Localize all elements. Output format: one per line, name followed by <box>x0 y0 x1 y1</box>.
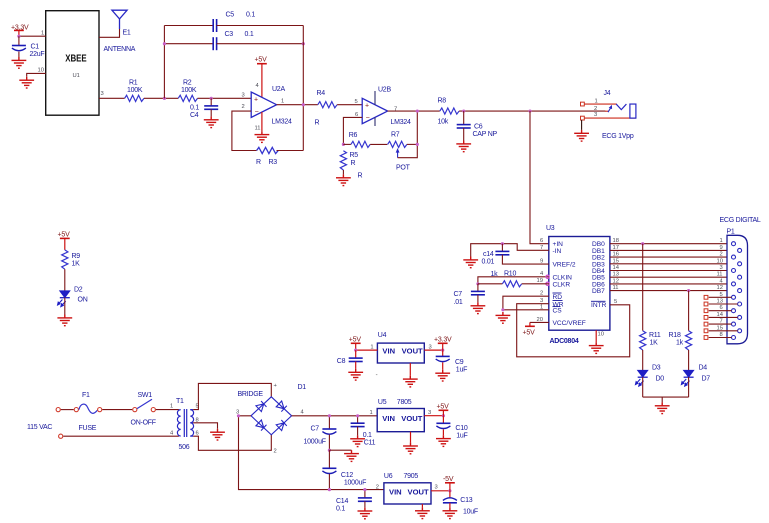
svg-text:0.1: 0.1 <box>336 506 345 513</box>
node XBEE pin1 <box>17 35 20 38</box>
ground LED rail <box>655 402 670 413</box>
capacitor C13 10uF <box>443 491 478 516</box>
resistor R18 1k <box>669 331 692 350</box>
svg-text:LM324: LM324 <box>272 119 293 126</box>
wire CLKIN pin4 <box>478 277 549 284</box>
svg-text:POT: POT <box>396 165 411 172</box>
svg-text:VREF/2: VREF/2 <box>553 262 576 269</box>
svg-text:1: 1 <box>720 238 723 244</box>
ground D2 <box>57 315 72 326</box>
svg-text:+5V: +5V <box>255 57 268 64</box>
svg-text:3: 3 <box>101 91 104 97</box>
svg-text:E1: E1 <box>123 30 131 37</box>
node mid rail C7/C12 <box>328 449 331 452</box>
wire U5 VOUT to +5V node <box>424 415 443 417</box>
resistor R2 100K <box>178 80 197 102</box>
wire ADC pin10 to ground <box>595 330 597 342</box>
svg-text:C4: C4 <box>190 112 199 119</box>
svg-text:VCC/VREF: VCC/VREF <box>553 320 586 327</box>
svg-text:VIN: VIN <box>382 414 395 423</box>
svg-text:U2B: U2B <box>378 87 391 94</box>
wire c14 to VREF/2 <box>502 255 548 264</box>
svg-text:XBEE: XBEE <box>65 54 87 65</box>
node 115 VAC terminal bottom <box>59 434 63 438</box>
wire U2B pin6 <box>343 117 362 144</box>
power +5V at U4 input <box>349 337 362 351</box>
svg-text:DB7: DB7 <box>592 288 605 295</box>
resistor R8 10k <box>438 98 460 126</box>
svg-text:RD: RD <box>553 294 563 301</box>
wire +3.3V node to XBEE pin 1 <box>19 35 46 37</box>
svg-text:c14: c14 <box>483 251 494 258</box>
svg-text:R: R <box>358 173 363 180</box>
wire DB1 <box>610 249 738 251</box>
svg-text:10: 10 <box>38 68 44 74</box>
svg-text:VOUT: VOUT <box>402 347 423 356</box>
capacitor C5 0.1 feedback <box>164 12 303 33</box>
svg-text:D7: D7 <box>702 376 711 383</box>
connector P1 ECG DIGITAL <box>717 217 761 344</box>
wire mid rail to ground <box>329 449 351 451</box>
svg-text:R: R <box>351 160 356 167</box>
svg-text:U5: U5 <box>378 399 387 406</box>
wire top terminal to fuse <box>61 409 74 411</box>
svg-text:3: 3 <box>435 484 438 490</box>
node C4 tap <box>210 97 213 100</box>
svg-text:2: 2 <box>376 484 379 490</box>
wire DB3 <box>610 263 738 265</box>
ground U2A <box>255 131 270 142</box>
node C14 top <box>363 488 366 491</box>
wire U5 gnd tab <box>410 432 412 443</box>
ground C9 <box>435 370 450 381</box>
capacitor C8 <box>337 350 363 369</box>
wire DB2 <box>610 256 732 258</box>
node R5/R6 junction <box>342 143 345 146</box>
wire R9 to D2 <box>64 269 66 291</box>
wire U4 gnd tab <box>409 363 411 376</box>
op-amp U2B LM324 <box>355 87 412 127</box>
svg-text:R10: R10 <box>504 271 516 278</box>
capacitor C3 0.1 feedback <box>164 31 303 50</box>
wire bridge right to U5 VIN (+ rail) <box>292 415 378 417</box>
capacitor C7 1000uF <box>304 416 337 450</box>
node C12 bottom <box>328 488 331 491</box>
svg-text:5: 5 <box>614 299 617 305</box>
svg-text:10: 10 <box>717 258 723 264</box>
capacitor C6 CAP NP <box>457 111 498 140</box>
svg-text:1: 1 <box>370 410 373 416</box>
ground C6 <box>456 141 471 152</box>
node C11 top <box>356 414 359 417</box>
svg-text:R3: R3 <box>269 159 278 166</box>
LED D2 ON <box>58 287 88 307</box>
svg-text:C6: C6 <box>474 124 483 131</box>
XBEE module U1 <box>38 11 104 116</box>
ground C13 <box>443 507 458 518</box>
ground ADC input net <box>463 257 478 268</box>
wire P1 pin8 NC <box>704 336 731 340</box>
wire P1 pin7 NC <box>704 322 731 326</box>
ground C1 <box>12 57 27 68</box>
svg-text:VIN: VIN <box>389 487 402 496</box>
svg-text:.01: .01 <box>454 299 463 306</box>
svg-text:CLKR: CLKR <box>553 281 571 288</box>
svg-text:R8: R8 <box>438 98 447 105</box>
svg-text:CS: CS <box>553 307 563 314</box>
svg-text:+: + <box>365 103 369 110</box>
svg-text:1K: 1K <box>72 261 81 268</box>
svg-text:+: + <box>254 96 258 103</box>
wire XBEE pin10 to ground <box>27 73 46 76</box>
ground U5 <box>403 443 418 454</box>
wire P1 pin13 NC <box>704 302 738 306</box>
resistor R3 feedback <box>256 147 278 166</box>
svg-text:FUSE: FUSE <box>79 425 97 432</box>
regulator U5 7805 <box>370 399 432 432</box>
svg-text:11: 11 <box>255 126 261 132</box>
wire D2 to ground <box>64 298 66 315</box>
svg-text:R18: R18 <box>669 332 681 339</box>
svg-text:R: R <box>315 120 320 127</box>
svg-text:C7: C7 <box>311 426 320 433</box>
wire left vertical to C3/C5 <box>163 26 165 99</box>
svg-text:3: 3 <box>720 265 723 271</box>
node U2A output <box>302 103 305 106</box>
svg-text:5: 5 <box>355 99 358 105</box>
node C3 right <box>302 42 305 45</box>
svg-text:D3: D3 <box>652 365 661 372</box>
wire RD pin2 to ground <box>503 296 549 310</box>
svg-text:U2A: U2A <box>272 86 285 93</box>
wire U6 VOUT to -5V node <box>431 490 450 492</box>
resistor R6 <box>343 132 370 147</box>
svg-text:LM324: LM324 <box>391 119 412 126</box>
svg-text:R1: R1 <box>129 80 138 87</box>
svg-text:+5V: +5V <box>58 232 71 239</box>
wire R6 to R7 <box>370 143 387 145</box>
svg-text:R11: R11 <box>649 332 661 339</box>
regulator U6 7905 <box>376 473 438 504</box>
svg-text:VIN: VIN <box>382 347 395 356</box>
power +5V at U5 output <box>437 404 450 416</box>
capacitor C4 0.1 <box>190 98 218 119</box>
ground C4 <box>204 116 219 127</box>
svg-text:0.1: 0.1 <box>190 105 199 112</box>
wire DB4 <box>610 270 732 272</box>
node 115 VAC terminal top <box>56 408 60 412</box>
svg-text:7905: 7905 <box>404 473 419 480</box>
svg-text:ECG DIGITAL: ECG DIGITAL <box>720 217 761 224</box>
svg-text:100K: 100K <box>181 87 197 94</box>
svg-text:1: 1 <box>595 98 598 104</box>
svg-text:C5: C5 <box>226 12 235 19</box>
wire DB6 <box>610 283 732 285</box>
svg-text:ADC0804: ADC0804 <box>550 338 579 345</box>
svg-text:BRIDGE: BRIDGE <box>238 391 264 398</box>
capacitor C11 0.1 <box>351 416 376 447</box>
wire D4 to rail <box>688 377 690 397</box>
wire WR to INTR loop <box>517 304 630 357</box>
svg-text:R7: R7 <box>391 132 400 139</box>
svg-text:ECG 1Vpp: ECG 1Vpp <box>602 133 634 140</box>
wire U2A output to R4 <box>277 104 318 106</box>
ground RD/CS <box>496 312 511 323</box>
capacitor C1 22uF <box>12 36 45 58</box>
ADC0804 U3 <box>537 225 620 345</box>
svg-text:+5V: +5V <box>523 330 536 337</box>
svg-text:R4: R4 <box>317 90 326 97</box>
svg-text:U1: U1 <box>73 73 80 79</box>
svg-text:ON-OFF: ON-OFF <box>131 420 156 427</box>
wire P1 pin15 NC <box>704 329 738 333</box>
connector J4 <box>581 90 637 120</box>
ground XBEE pin10 <box>19 77 34 88</box>
svg-text:3: 3 <box>242 93 245 99</box>
svg-text:11: 11 <box>717 272 723 278</box>
svg-text:22uF: 22uF <box>30 51 45 58</box>
ground C10 <box>436 435 451 446</box>
ground mid rail <box>344 450 359 461</box>
svg-text:ANTENNA: ANTENNA <box>104 46 136 53</box>
svg-text:−: − <box>255 109 259 116</box>
capacitor C9 1uF <box>436 350 467 373</box>
svg-text:+5V: +5V <box>437 404 450 411</box>
wire bridge left to negative vertical rail <box>239 416 384 490</box>
capacitor C10 1uF <box>436 416 467 440</box>
op-amp U2A LM324 <box>242 86 293 126</box>
svg-text:C3: C3 <box>225 31 234 38</box>
wire -IN to ground net <box>471 244 549 257</box>
svg-text:ON: ON <box>78 297 88 304</box>
svg-text:C7: C7 <box>454 291 463 298</box>
svg-text:115 VAC: 115 VAC <box>27 424 52 431</box>
ground C7 adc <box>471 302 486 313</box>
wire U2A gnd pin 11 <box>261 112 263 131</box>
svg-text:−: − <box>366 115 370 122</box>
svg-text:D2: D2 <box>74 287 83 294</box>
svg-text:-IN: -IN <box>553 248 562 255</box>
svg-text:C13: C13 <box>460 497 472 504</box>
wire R3 to output vertical <box>277 150 304 152</box>
svg-text:VOUT: VOUT <box>408 487 429 496</box>
svg-text:10uF: 10uF <box>463 509 478 516</box>
resistor R11 1K <box>640 331 661 350</box>
fuse F1 <box>74 392 102 432</box>
wire antenna to XBEE <box>99 29 120 37</box>
wire T1 center tap to ground <box>193 423 217 429</box>
wire CS pin1 <box>503 309 549 311</box>
svg-text:1K: 1K <box>650 340 659 347</box>
wire U2B output to R8 <box>388 110 440 112</box>
node bridge left corner <box>237 414 240 417</box>
capacitor C12 1000uF <box>322 450 366 489</box>
svg-text:U6: U6 <box>384 473 393 480</box>
wire R1 to R2 <box>144 97 178 99</box>
wire U4 input <box>356 349 378 351</box>
svg-text:+3.3V: +3.3V <box>434 337 452 344</box>
svg-text:U4: U4 <box>378 332 387 339</box>
svg-text:10k: 10k <box>438 119 449 126</box>
svg-text:1k: 1k <box>491 271 499 278</box>
svg-text:C12: C12 <box>341 472 353 479</box>
wire right vertical C5/C3 to output/R3 <box>302 26 304 151</box>
resistor R4 <box>315 90 338 127</box>
wire U6 gnd tab <box>421 504 423 507</box>
ground ADC pin10 <box>589 342 604 353</box>
resistor R10 <box>478 271 549 287</box>
wire D3 to rail <box>642 377 644 397</box>
wire fuse to switch <box>102 409 132 411</box>
svg-text:-: - <box>376 373 378 379</box>
wire R18 to D4 <box>688 350 690 370</box>
svg-text:+5V: +5V <box>349 337 362 344</box>
power -5V at U6 output <box>443 476 455 491</box>
LED D4 D7 <box>681 365 710 387</box>
svg-text:0.01: 0.01 <box>482 259 495 266</box>
svg-text:100K: 100K <box>127 87 143 94</box>
capacitor c14 0.01 <box>482 244 510 266</box>
ground C8 <box>348 369 363 380</box>
svg-text:1uF: 1uF <box>456 367 467 374</box>
bridge rectifier D1 <box>236 383 306 455</box>
pin marker CLKR <box>546 282 549 285</box>
node ADC feed tap <box>528 109 531 112</box>
ground T1 center tap <box>210 429 225 440</box>
svg-text:6: 6 <box>196 431 199 437</box>
svg-text:U3: U3 <box>546 225 555 232</box>
node DB7/R18 <box>687 289 690 292</box>
wire rail stub to ground <box>661 397 663 402</box>
node R7/output junction <box>416 143 419 146</box>
transformer T1 <box>170 398 199 451</box>
node U4 input <box>354 349 357 352</box>
power +5V at U2A <box>255 57 268 99</box>
node U2B output <box>416 109 419 112</box>
wire bottom terminal to T1 <box>63 435 179 437</box>
wire DB7 <box>610 290 738 292</box>
node U4 output <box>441 349 444 352</box>
node c14 tap <box>501 242 504 245</box>
svg-text:1: 1 <box>41 31 44 37</box>
ground C14 <box>358 508 373 519</box>
wire DB0 to R11 <box>642 244 644 331</box>
ground R5 <box>336 174 351 185</box>
svg-text:2: 2 <box>594 106 597 112</box>
wire U4 output <box>424 349 442 351</box>
resistor R9 1K <box>62 250 81 269</box>
svg-text:C11: C11 <box>364 440 376 447</box>
svg-text:R2: R2 <box>183 80 192 87</box>
svg-text:10: 10 <box>598 332 604 338</box>
node U6 output <box>448 489 451 492</box>
power +5V at VCC/VREF pin20 <box>523 322 549 336</box>
svg-text:-5V: -5V <box>443 476 454 483</box>
regulator U4 <box>370 332 431 363</box>
wire J4 pin3 to ground <box>581 120 583 130</box>
svg-text:6: 6 <box>540 238 543 244</box>
wire U2A feedback pin2 <box>232 111 257 150</box>
svg-text:VOUT: VOUT <box>401 414 422 423</box>
svg-text:D4: D4 <box>699 365 708 372</box>
svg-text:C8: C8 <box>337 358 346 365</box>
ground U4 <box>403 376 418 387</box>
svg-text:9: 9 <box>720 245 723 251</box>
wire LED ground rail <box>643 396 689 398</box>
wire R7 right + wiper loop <box>407 143 417 145</box>
svg-text:7805: 7805 <box>397 399 412 406</box>
pin marker CLKIN <box>546 275 549 278</box>
node RD/CS junction <box>501 308 504 311</box>
resistor R1 100K <box>125 80 144 102</box>
svg-text:R5: R5 <box>350 152 359 159</box>
svg-text:2: 2 <box>720 252 723 258</box>
svg-text:1000uF: 1000uF <box>344 480 366 487</box>
svg-text:CLKIN: CLKIN <box>553 274 573 281</box>
svg-text:0.1: 0.1 <box>363 432 372 439</box>
node R1/R2 junction <box>163 97 166 100</box>
potentiometer R7 POT <box>388 132 411 172</box>
power +3.3V at XBEE pin1 <box>11 24 29 36</box>
wire P1 pin5 NC <box>704 295 731 299</box>
svg-text:1uF: 1uF <box>456 433 467 440</box>
svg-text:F1: F1 <box>82 392 90 399</box>
svg-text:506: 506 <box>179 444 190 451</box>
svg-text:C10: C10 <box>455 425 467 432</box>
svg-text:12: 12 <box>717 285 723 291</box>
node CLK junction <box>476 282 479 285</box>
LED D3 D0 <box>635 365 664 387</box>
svg-text:1: 1 <box>170 404 173 410</box>
ground C11 <box>350 435 365 446</box>
svg-text:R9: R9 <box>72 253 81 260</box>
ground U6 <box>415 507 430 518</box>
wire R4 to U2B pin5 <box>337 104 362 106</box>
svg-text:1k: 1k <box>676 340 684 347</box>
wire XBEE output to R1 <box>99 97 125 99</box>
power +5V at R9 <box>58 232 71 250</box>
svg-text:2: 2 <box>274 449 277 455</box>
svg-text:1: 1 <box>281 99 284 105</box>
wire T1 secondary bottom to bridge bottom <box>193 435 271 451</box>
svg-text:0.1: 0.1 <box>246 12 255 19</box>
svg-text:J4: J4 <box>604 90 611 97</box>
wire R11 to D3 <box>642 350 644 370</box>
svg-text:C9: C9 <box>455 359 464 366</box>
antenna E1 <box>104 10 136 53</box>
svg-text:0.1: 0.1 <box>245 31 254 38</box>
capacitor C14 0.1 <box>336 490 372 513</box>
ground J4 <box>574 130 589 141</box>
node C3 left <box>163 42 166 45</box>
node U5 output <box>442 414 445 417</box>
svg-text:3: 3 <box>594 112 597 118</box>
svg-text:R: R <box>256 159 261 166</box>
wire DB7 to R18 <box>688 291 690 331</box>
svg-text:D0: D0 <box>656 376 665 383</box>
capacitor C7 .01 (ADC clock) <box>454 284 485 306</box>
wire R5 to ground <box>342 170 344 174</box>
svg-text:P1: P1 <box>727 229 735 236</box>
resistor R5 <box>340 151 362 180</box>
wire R8 to J4 <box>459 110 605 112</box>
wire R2 to U2A pin3 <box>198 97 252 99</box>
svg-text:INTR: INTR <box>591 302 607 309</box>
svg-text:1000uF: 1000uF <box>304 439 326 446</box>
node C6 tap <box>462 109 465 112</box>
wire T1 secondary top to bridge top <box>193 383 271 409</box>
svg-text:C14: C14 <box>336 498 348 505</box>
